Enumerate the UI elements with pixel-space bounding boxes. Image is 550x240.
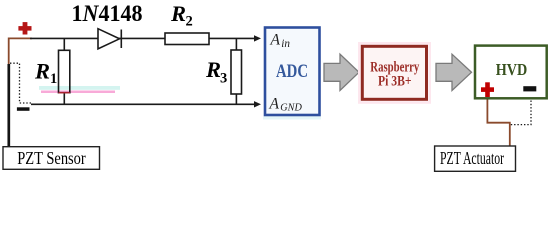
artifact: red bottom edge of R1 (59, 92, 70, 94)
svg-text:in: in (281, 38, 290, 50)
node: PZT sensor - terminal (17, 107, 30, 111)
svg-text:1N4148: 1N4148 (72, 1, 143, 26)
svg-text:GND: GND (280, 103, 302, 114)
resistor R2 (165, 33, 209, 45)
svg-text:A: A (270, 32, 281, 49)
svg-text:A: A (269, 96, 280, 113)
diode D1 1N4148 (98, 29, 121, 49)
label R1 (34, 59, 57, 87)
wire: top rail (30, 37, 255, 39)
pin label A_GND (269, 96, 303, 114)
label R2 (170, 1, 193, 30)
wire: red lead from sensor to top rail (9, 38, 32, 65)
resistor R3 (231, 38, 242, 104)
pin label A_in (270, 32, 291, 50)
module U2: Raspberry Pi 3B+ (362, 46, 426, 99)
label R3 (205, 57, 227, 87)
arrow: Raspberry Pi to HVD (436, 54, 472, 90)
svg-text:ADC: ADC (276, 62, 308, 82)
node: arrowhead into A_in (254, 35, 261, 41)
svg-text:R: R (34, 59, 50, 84)
block: PZT Sensor (3, 147, 100, 170)
svg-text:R: R (170, 1, 186, 26)
svg-text:1: 1 (50, 71, 57, 87)
module U1: ADC (265, 28, 320, 116)
svg-text:2: 2 (186, 14, 193, 30)
svg-text:R: R (205, 57, 221, 82)
label HVD (496, 60, 528, 79)
svg-text:HVD: HVD (496, 60, 528, 79)
wire: thick sensor cable (7, 64, 10, 147)
wire: dotted sensor minus to ground rail (10, 63, 31, 103)
node: HVD + output terminal (481, 82, 494, 97)
svg-text:Pi 3B+: Pi 3B+ (378, 74, 412, 90)
node: HVD - output terminal (523, 86, 536, 91)
node: arrowhead into A_GND (254, 101, 261, 107)
label 1N4148 (72, 1, 143, 26)
artifact: pink glow around Raspberry Pi box (359, 43, 429, 102)
label Raspberry Pi 3B+ (370, 60, 419, 90)
resistor R1 (59, 38, 70, 104)
arrow: ADC to Raspberry Pi (324, 54, 359, 90)
artifact: cyan band under ADC box (263, 117, 321, 120)
module U3: HVD (475, 46, 547, 99)
svg-text:PZT Actuator: PZT Actuator (440, 148, 504, 168)
svg-text:3: 3 (220, 71, 227, 87)
label ADC (276, 62, 308, 82)
artifact: cyan band across R1 bottom (39, 86, 120, 90)
artifact: pink band across R1 bottom (41, 91, 115, 94)
node: PZT sensor + terminal (18, 22, 31, 34)
block: PZT Actuator (435, 146, 516, 171)
label PZT Actuator (440, 148, 504, 168)
svg-text:PZT Sensor: PZT Sensor (17, 148, 86, 168)
wire: bottom rail (A_GND) (31, 103, 255, 105)
wire: dotted HVD - return (511, 101, 532, 125)
label PZT Sensor (17, 148, 86, 168)
wire: HVD + to PZT actuator (487, 100, 509, 147)
